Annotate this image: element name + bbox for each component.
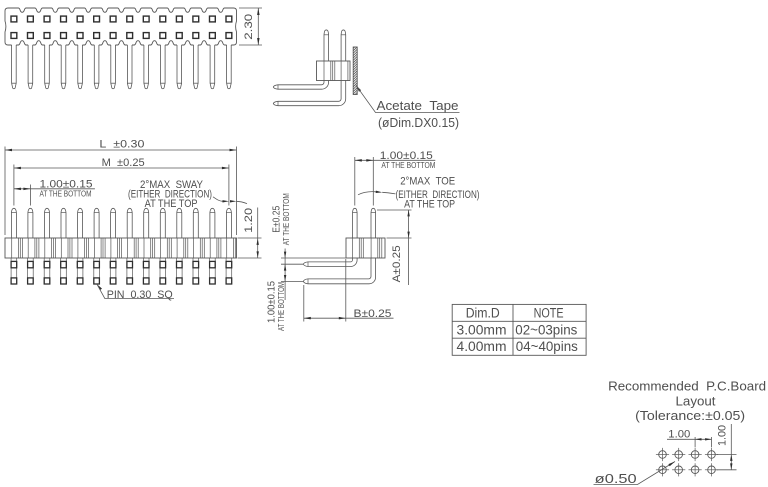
- front view: bottom pin, column 2: [27, 258, 29, 284]
- svg-text:Acetate Tape: Acetate Tape: [377, 99, 459, 113]
- front view: upper pin, column 12: [193, 208, 198, 238]
- top view: square pin contacts, column 5: [77, 16, 83, 22]
- top view: square pin contacts, column 7: [110, 16, 116, 22]
- front view: bottom pin, column 4: [60, 258, 62, 284]
- top view: downward pin, column 14: [227, 44, 232, 89]
- svg-text:AT THE BOTTOM: AT THE BOTTOM: [381, 160, 435, 170]
- top view: downward pin, column 1: [12, 44, 17, 89]
- svg-text:AT THE BOTTOM: AT THE BOTTOM: [276, 282, 286, 331]
- top view: downward pin, column 11: [177, 44, 182, 89]
- front view: bottom pin, column 9: [142, 258, 144, 284]
- front view: bottom pin, column 8: [126, 258, 128, 284]
- svg-text:1.00: 1.00: [717, 425, 729, 446]
- top view: square pin contacts, column 12: [193, 16, 199, 22]
- front view: body segment lines: [11, 238, 13, 258]
- pcb layout: hole row 2 col 1: [659, 466, 667, 474]
- top view: downward pin, column 5: [78, 44, 83, 89]
- svg-text:Dim.D: Dim.D: [466, 305, 500, 320]
- top view: square pin contacts, column 6: [94, 16, 100, 22]
- front view: bottom pin, column 12: [192, 258, 194, 284]
- svg-text:(Tolerance:±0.05): (Tolerance:±0.05): [635, 408, 745, 423]
- front view: dimension 1.20 (body height): [238, 237, 262, 239]
- top view: square pin contacts, column 14: [226, 16, 232, 22]
- front view: bottom pin, column 7: [109, 258, 111, 284]
- svg-text:02~03pins: 02~03pins: [515, 322, 577, 337]
- svg-text:AT THE TOP: AT THE TOP: [145, 198, 198, 210]
- svg-text:AT THE TOP: AT THE TOP: [404, 198, 455, 210]
- top view: dimension 2.30 (body depth): [239, 7, 262, 9]
- ra view: vertical pin 2: [371, 208, 376, 238]
- pcb layout: dimension 1.00 vertical: [717, 454, 737, 456]
- front view: bottom pin, column 5: [76, 258, 78, 284]
- svg-text:2°MAX TOE: 2°MAX TOE: [400, 176, 455, 188]
- top view: downward pin, column 2: [28, 44, 33, 89]
- svg-text:PIN 0.30 SQ: PIN 0.30 SQ: [107, 289, 173, 301]
- front view: insulator body: [5, 238, 237, 258]
- top view: square pin contacts, column 11: [176, 16, 182, 22]
- svg-text:04~40pins: 04~40pins: [516, 339, 578, 354]
- front view: upper pin, column 8: [127, 208, 132, 238]
- front view: upper pin, column 3: [45, 208, 50, 238]
- ra view: toe leader arc: [358, 192, 376, 195]
- top view: downward pin, column 13: [210, 44, 215, 89]
- top view: downward pin, column 3: [45, 44, 50, 89]
- front view: upper pin, column 2: [28, 208, 33, 238]
- front view: sway leader arrows at last pin: [213, 197, 223, 202]
- front view: upper pin, column 4: [61, 208, 66, 238]
- pcb layout: dimension 1.00 horizontal: [694, 437, 696, 447]
- front view: dimension 1.00 +-0.15 pitch: [29, 185, 31, 206]
- front view: bottom pin, column 13: [209, 258, 211, 284]
- top view: square pin contacts, column 4: [61, 16, 67, 22]
- front view: upper pin, column 11: [177, 208, 182, 238]
- top view: downward pin, column 9: [144, 44, 149, 89]
- side view: Acetate Tape label with leader: [356, 85, 361, 91]
- ra view: dimension B +-0.25 (bottom): [303, 285, 305, 322]
- pcb layout: hole diameter 0.50 label with leader: [594, 462, 676, 485]
- pcb layout: hole row 1 col 3: [691, 451, 699, 459]
- pcb layout: hole row 1 col 2: [675, 451, 683, 459]
- side view: vertical pin B (back row): [341, 30, 346, 61]
- svg-text:Layout: Layout: [676, 393, 716, 408]
- ra view: bent pin 1 (upper horizontal): [303, 258, 357, 267]
- front view: dimension M +-0.25: [13, 165, 15, 206]
- front view: bottom pin, column 6: [93, 258, 95, 284]
- front view: upper pin, column 7: [111, 208, 116, 238]
- svg-text:B±0.25: B±0.25: [354, 308, 392, 320]
- svg-text:M ±0.25: M ±0.25: [102, 157, 145, 169]
- top view: square pin contacts, column 13: [210, 16, 216, 22]
- ra view: dimension A +-0.25 (right side): [377, 209, 412, 211]
- svg-text:Recommended P.C.Board: Recommended P.C.Board: [608, 379, 766, 394]
- svg-text:AT THE BOTTOM: AT THE BOTTOM: [281, 193, 291, 245]
- front view: upper pin, column 9: [144, 208, 149, 238]
- svg-text:3.00mm: 3.00mm: [457, 322, 507, 337]
- side view: vertical pin A (front row): [324, 30, 329, 61]
- svg-text:(øDim.DX0.15): (øDim.DX0.15): [378, 116, 459, 130]
- ra view: dimension E +-0.25 and 1.00 +-0.15 (left side): [281, 257, 346, 259]
- ra view: bent pin 2 (lower horizontal): [303, 258, 375, 284]
- side view: bent pin A (upper horizontal): [273, 81, 328, 90]
- front view: upper pin, column 14: [226, 208, 231, 238]
- top view: downward pin, column 6: [94, 44, 99, 89]
- svg-text:1.20: 1.20: [243, 208, 255, 233]
- top view: square pin contacts, column 3: [44, 16, 50, 22]
- front view: upper pin, column 10: [160, 208, 165, 238]
- front view: bottom pin, column 3: [43, 258, 45, 284]
- side view: bent pin B (lower horizontal): [273, 81, 345, 106]
- pcb layout: hole row 1 col 4: [708, 451, 716, 459]
- front view: bottom pin, column 10: [159, 258, 161, 284]
- front view: dimension L +-0.30: [4, 147, 6, 236]
- pcb layout: hole row 1 col 1: [659, 451, 667, 459]
- table: Dim.D / NOTE: [452, 304, 586, 355]
- top view: downward pin, column 12: [194, 44, 199, 89]
- side view: body segment lines: [323, 61, 325, 81]
- svg-text:2.30: 2.30: [243, 14, 255, 40]
- front view: upper pin, column 13: [210, 208, 215, 238]
- svg-text:4.00mm: 4.00mm: [457, 339, 507, 354]
- ra view: dimension 1.00 +-0.15 (top): [354, 157, 356, 206]
- front view: bottom pin, column 11: [176, 258, 178, 284]
- svg-text:NOTE: NOTE: [534, 305, 564, 320]
- front view: upper pin, column 5: [78, 208, 83, 238]
- top view: square pin contacts, column 9: [143, 16, 149, 22]
- ra view: insulator body: [346, 238, 385, 258]
- front view: bottom pin, column 1: [10, 258, 12, 284]
- side view: insulator body: [317, 61, 351, 81]
- top view: square pin contacts, column 10: [160, 16, 166, 22]
- pcb layout: hole row 2 col 4: [708, 466, 716, 474]
- top view: square pin contacts, column 1: [11, 16, 17, 22]
- front view: upper pin, column 6: [94, 208, 99, 238]
- top view: downward pin, column 7: [111, 44, 116, 89]
- top view: header body outline (scalloped, 14 positions): [5, 8, 237, 45]
- svg-text:1.00: 1.00: [668, 428, 690, 440]
- svg-text:L ±0.30: L ±0.30: [99, 139, 144, 151]
- top view: downward pin, column 10: [161, 44, 166, 89]
- front view: PIN 0.30 SQ label with leader: [97, 284, 102, 290]
- top view: downward pin, column 4: [61, 44, 66, 89]
- svg-text:A±0.25: A±0.25: [391, 245, 403, 282]
- ra view: body segment lines: [352, 238, 354, 258]
- top view: square pin contacts, column 2: [28, 16, 34, 22]
- ra view: vertical pin 1: [353, 208, 358, 238]
- pcb layout: hole row 2 col 2: [675, 466, 683, 474]
- svg-text:AT THE BOTTOM: AT THE BOTTOM: [40, 188, 92, 198]
- top view: downward pin, column 8: [127, 44, 132, 89]
- pcb layout: hole row 2 col 3: [691, 466, 699, 474]
- top view: square pin contacts, column 8: [127, 16, 133, 22]
- svg-text:ø0.50: ø0.50: [595, 472, 637, 486]
- front view: bottom pin, column 14: [225, 258, 227, 284]
- front view: upper pin, column 1: [11, 208, 16, 238]
